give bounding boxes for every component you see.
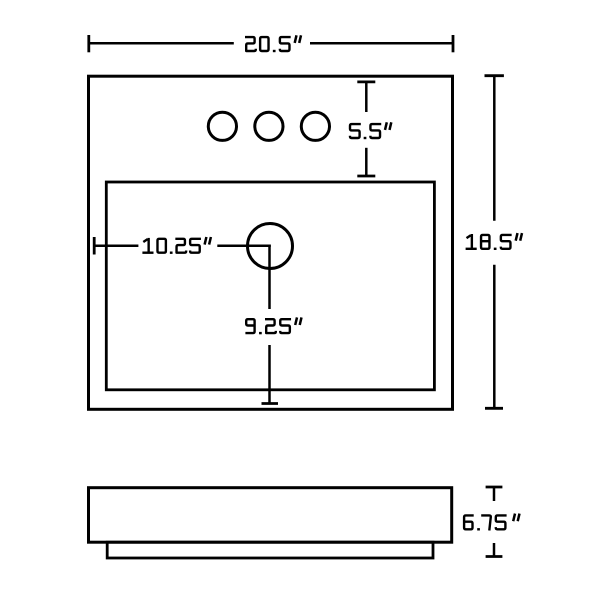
dim 9.25 label (245, 319, 254, 333)
dim 18.5 bottom tick (485, 407, 503, 410)
dim 6.75 top tick (486, 486, 503, 489)
dim 9.25 upper stub from drain center (268, 245, 271, 309)
dim 10.25 line right segment (217, 245, 270, 248)
dim 20.5 right tick (452, 35, 455, 52)
side view pedestal base (107, 542, 433, 558)
dim 5.5 lower stub (365, 148, 368, 176)
dim 5.5 label (350, 124, 361, 138)
dim 10.25 label (143, 239, 147, 242)
faucet hole left (208, 112, 236, 140)
dim 5.5 bottom tick (357, 175, 375, 178)
dim 6.75 lower stub (493, 543, 496, 557)
dim 20.5 label (245, 37, 256, 51)
dim 18.5 label (467, 235, 471, 238)
faucet hole right (301, 112, 329, 140)
dim 20.5 line left segment (89, 42, 234, 45)
dim 6.75 label (464, 515, 474, 529)
dim 10.25 left tick (93, 237, 96, 255)
dim 5.5 top tick (357, 81, 375, 84)
dim 6.75 bottom tick (486, 555, 503, 558)
dim 5.5 upper stub (365, 82, 368, 112)
basin inner rect (106, 182, 434, 390)
dim 20.5 line right segment (310, 42, 453, 45)
faucet hole center (255, 112, 283, 140)
dim 18.5 upper segment (493, 76, 496, 221)
sink outer rim (top view) (89, 76, 453, 409)
dim 6.75 upper stub (493, 487, 496, 501)
drain circle (248, 224, 293, 269)
dim 9.25 lower stub (268, 345, 271, 404)
dim 18.5 lower segment (493, 265, 496, 409)
dim 18.5 top tick (485, 74, 504, 77)
dim 9.25 bottom tick (262, 402, 279, 405)
dim 20.5 left tick (87, 35, 90, 52)
side view body (89, 488, 452, 543)
dim 10.25 line left segment (94, 245, 138, 248)
